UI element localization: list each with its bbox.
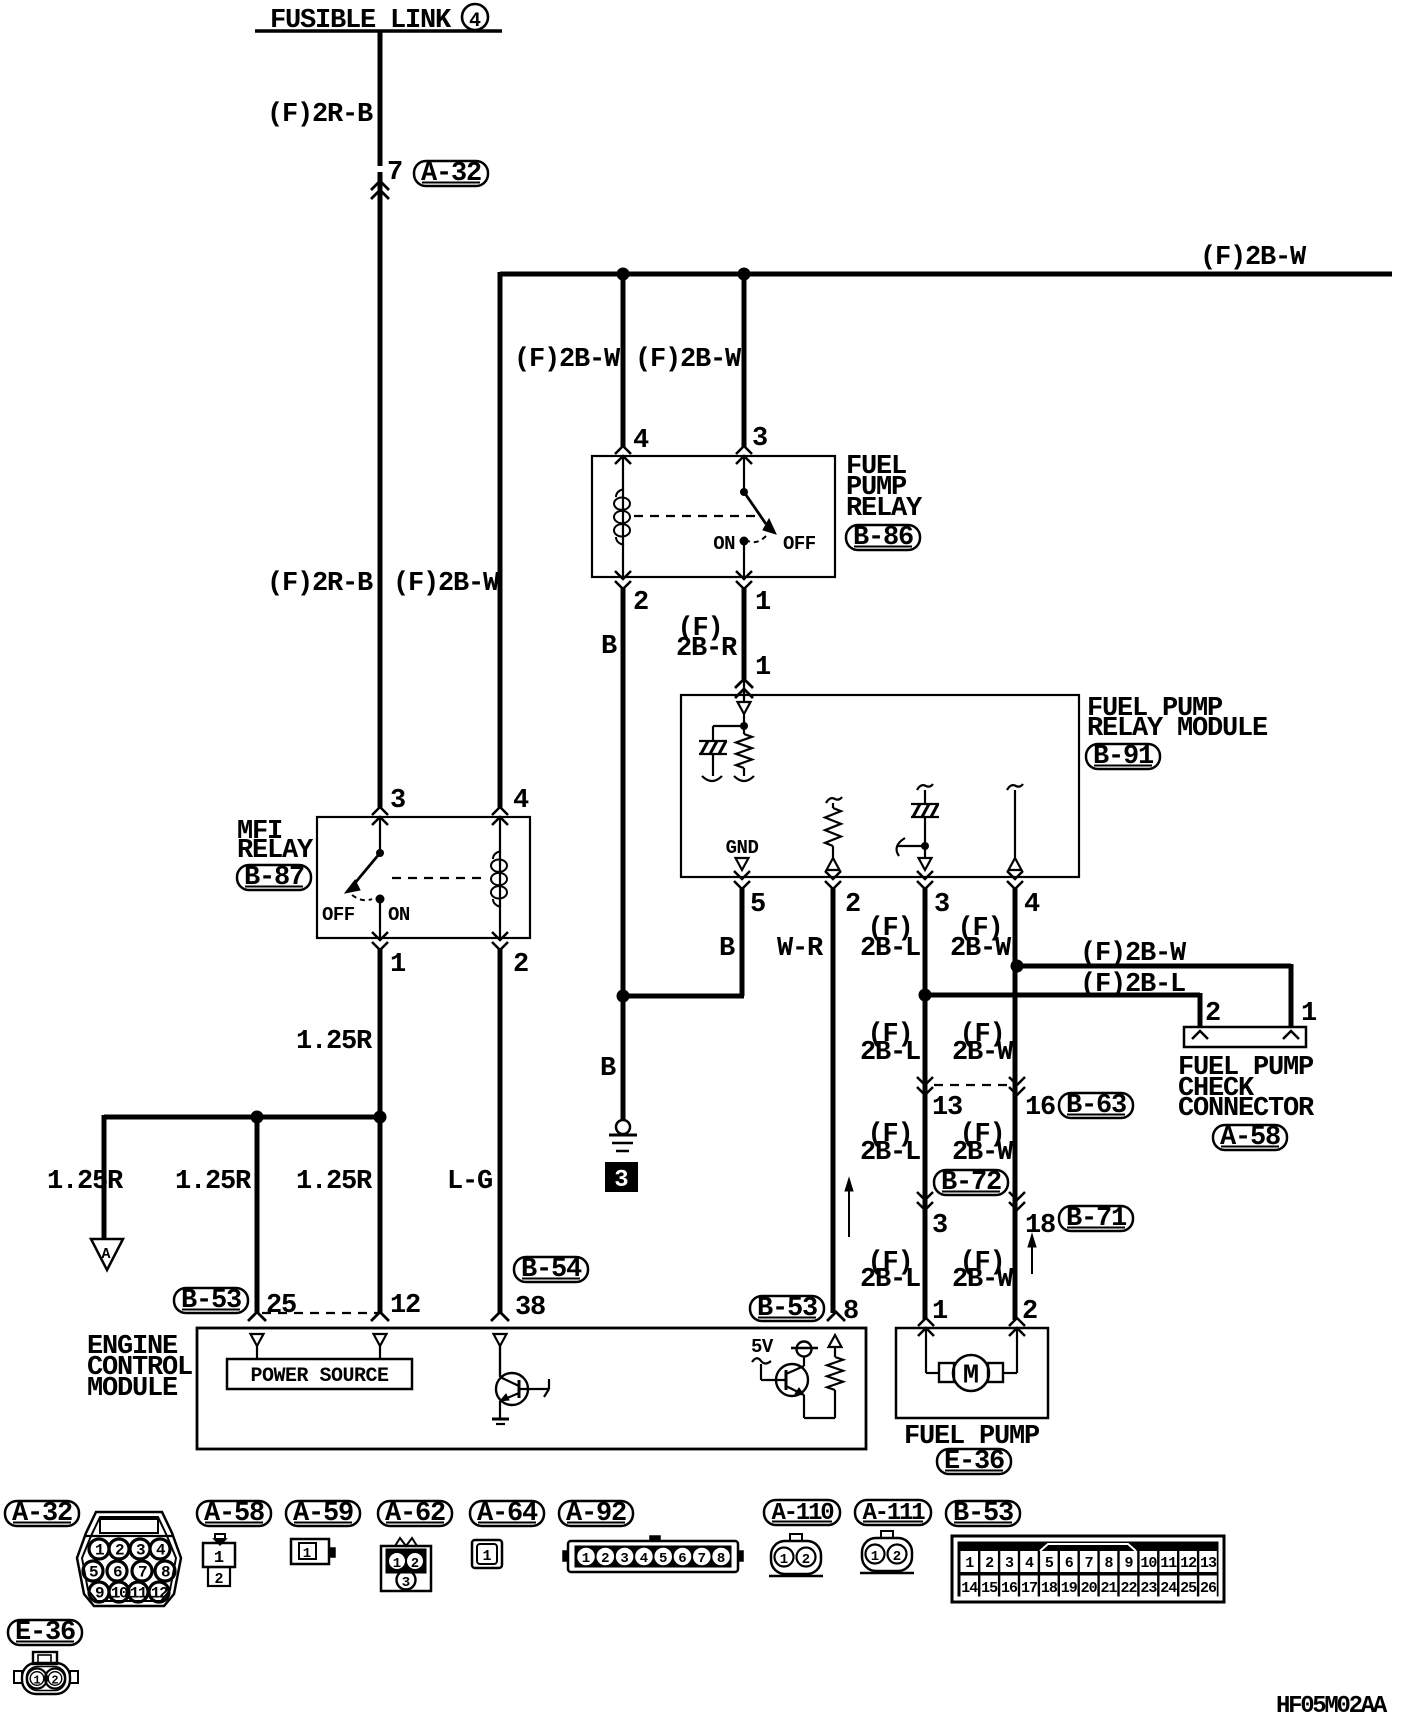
svg-text:20: 20 xyxy=(1081,1580,1098,1597)
svg-text:1: 1 xyxy=(33,1674,40,1688)
ground ref black box 3 xyxy=(605,1162,638,1192)
svg-text:A-110: A-110 xyxy=(771,1500,834,1527)
connector label B-91 xyxy=(1086,744,1160,769)
module internal branch wire xyxy=(713,725,744,727)
svg-text:4: 4 xyxy=(1024,890,1040,920)
svg-text:8: 8 xyxy=(161,1564,170,1582)
svg-text:3: 3 xyxy=(620,1551,628,1567)
fuel pump pin2 entry chevrons xyxy=(1009,1318,1025,1326)
svg-text:7: 7 xyxy=(387,158,402,188)
MFI relay pin 3 entry chevrons xyxy=(372,807,388,815)
module pin 2 exit chevrons xyxy=(825,871,841,879)
junction dot 2B-W branch xyxy=(1011,960,1024,973)
ECM entry chevron pin 25 xyxy=(248,1312,266,1321)
svg-text:18: 18 xyxy=(1025,1211,1055,1241)
svg-text:2: 2 xyxy=(985,1555,994,1572)
svg-text:3: 3 xyxy=(752,424,767,454)
svg-text:L-G: L-G xyxy=(447,1167,492,1197)
connector label B-63 xyxy=(1059,1093,1133,1118)
module thyristor hatch xyxy=(699,740,727,742)
svg-text:15: 15 xyxy=(981,1580,998,1597)
svg-text:CONNECTOR: CONNECTOR xyxy=(1178,1094,1315,1124)
svg-text:1.25R: 1.25R xyxy=(175,1167,252,1197)
MFI relay switch arm xyxy=(350,853,380,889)
svg-text:(F)2B-W: (F)2B-W xyxy=(1200,243,1307,273)
connector label A-58 bottom xyxy=(197,1501,271,1526)
ECM transistor Q1 xyxy=(496,1373,528,1405)
module pin 4 exit chevrons xyxy=(1007,871,1023,879)
svg-text:16: 16 xyxy=(1025,1093,1055,1123)
svg-text:11: 11 xyxy=(1160,1555,1177,1572)
fuel pump motor wires xyxy=(925,1328,927,1373)
svg-text:24: 24 xyxy=(1160,1580,1177,1597)
svg-text:26: 26 xyxy=(1200,1580,1217,1597)
svg-text:1: 1 xyxy=(390,950,406,980)
svg-text:4: 4 xyxy=(640,1551,648,1567)
connector label A-59 bottom xyxy=(286,1501,360,1526)
svg-text:16: 16 xyxy=(1001,1580,1018,1597)
svg-text:6: 6 xyxy=(113,1564,122,1582)
module pin3 left foot xyxy=(897,845,925,847)
svg-text:A-32: A-32 xyxy=(12,1499,72,1529)
connector label B-87 xyxy=(237,865,311,890)
svg-text:2B-L: 2B-L xyxy=(860,934,920,964)
connector label A-64 bottom xyxy=(470,1501,544,1526)
connector B-63 chevrons on 2B-L xyxy=(917,1077,933,1085)
connector label B-72 xyxy=(934,1170,1008,1195)
svg-text:A: A xyxy=(101,1246,110,1263)
junction dot x257 xyxy=(251,1111,264,1124)
svg-text:3: 3 xyxy=(934,890,949,920)
connector label A-58 xyxy=(1213,1125,1287,1150)
module pin 3 exit chevrons xyxy=(917,871,933,879)
svg-text:4: 4 xyxy=(1025,1555,1034,1572)
svg-text:2: 2 xyxy=(633,588,648,618)
fuel pump pin1 entry chevrons xyxy=(918,1318,934,1326)
svg-text:(F)2R-B: (F)2R-B xyxy=(267,569,373,599)
module pin3 hook xyxy=(917,784,933,790)
svg-text:OFF: OFF xyxy=(322,904,355,926)
svg-text:2B-W: 2B-W xyxy=(950,934,1012,964)
wire (F)2B-R relay pin1 to module xyxy=(742,587,747,679)
ground arrow A xyxy=(91,1239,123,1270)
wire (F)2B-W module pin4 down xyxy=(1013,887,1018,1320)
svg-text:5: 5 xyxy=(659,1551,667,1567)
svg-text:5: 5 xyxy=(89,1564,98,1582)
svg-text:8: 8 xyxy=(1105,1555,1114,1572)
svg-text:17: 17 xyxy=(1021,1580,1037,1597)
module GND triangle xyxy=(736,858,749,870)
svg-text:POWER SOURCE: POWER SOURCE xyxy=(250,1365,389,1388)
svg-text:(F)2B-L: (F)2B-L xyxy=(1080,970,1185,1000)
wire (F)2B-W to fuel pump relay pin 4 xyxy=(621,274,626,447)
power bus (F)2B-W horizontal xyxy=(500,272,1392,277)
fuel pump motor M xyxy=(953,1355,989,1391)
svg-text:1: 1 xyxy=(95,1542,104,1560)
MFI relay switch arc xyxy=(352,895,372,900)
module pin4 triangle xyxy=(1009,858,1022,870)
svg-text:9: 9 xyxy=(1124,1555,1133,1572)
svg-text:1: 1 xyxy=(393,1556,401,1572)
MFI relay coil wire xyxy=(499,817,501,938)
svg-text:RELAY MODULE: RELAY MODULE xyxy=(1087,714,1268,744)
module pin3 triangle xyxy=(919,858,932,870)
svg-text:5V: 5V xyxy=(751,1336,774,1358)
check connector chevrons xyxy=(1192,1031,1208,1039)
svg-text:GND: GND xyxy=(726,837,759,859)
connector A-32 inline chevrons on W1 xyxy=(371,181,389,190)
wire W1 (F)2R-B to MFI relay pin 3 xyxy=(378,172,383,808)
fuel pump relay B-86 box xyxy=(592,456,835,577)
module pin2 resistor hook xyxy=(826,797,842,803)
connector A-58 drawing xyxy=(215,1534,225,1539)
wire B corner to junction xyxy=(620,994,744,999)
relay B-86 coil wire xyxy=(622,456,624,577)
svg-text:6: 6 xyxy=(1065,1555,1074,1572)
ECM transistor ground xyxy=(499,1401,501,1419)
junction dot B wires xyxy=(617,990,630,1003)
MFI relay switch pivot dot xyxy=(376,849,384,857)
svg-text:2: 2 xyxy=(601,1551,609,1567)
svg-text:25: 25 xyxy=(1180,1580,1197,1597)
ECM pin8 input triangle xyxy=(829,1335,842,1347)
svg-text:E-36: E-36 xyxy=(944,1447,1004,1477)
svg-text:B: B xyxy=(600,1054,616,1084)
junction dot bus x623 xyxy=(617,268,630,281)
relay B-86 switch pivot dot xyxy=(740,488,748,496)
svg-text:11: 11 xyxy=(130,1585,147,1603)
svg-text:1.25R: 1.25R xyxy=(47,1167,124,1197)
svg-text:6: 6 xyxy=(678,1551,686,1567)
connector B-71 chevrons on 2B-W xyxy=(1009,1192,1025,1200)
svg-text:3: 3 xyxy=(932,1211,947,1241)
svg-text:2: 2 xyxy=(214,1571,223,1588)
wire (F)2B-W to fuel pump relay pin 3 xyxy=(742,274,747,447)
connector A-62 drawing xyxy=(381,1546,431,1591)
MFI relay pin 1 exit chevrons xyxy=(372,932,388,940)
svg-text:(F)2B-W: (F)2B-W xyxy=(1080,939,1187,969)
svg-text:2: 2 xyxy=(893,1549,901,1565)
svg-text:23: 23 xyxy=(1140,1580,1157,1597)
svg-text:2: 2 xyxy=(1022,1297,1037,1327)
svg-text:B-86: B-86 xyxy=(853,523,913,553)
ECM transistor Q2 emitter route xyxy=(803,1395,805,1418)
junction dot 2B-L branch xyxy=(919,989,932,1002)
svg-text:9: 9 xyxy=(95,1585,104,1603)
MFI relay ON wire down xyxy=(379,899,381,938)
svg-text:38: 38 xyxy=(515,1293,545,1323)
flow arrow on W-R wire xyxy=(848,1190,850,1237)
svg-text:2B-W: 2B-W xyxy=(952,1265,1014,1295)
connector label A-62 bottom xyxy=(378,1501,452,1526)
svg-text:2: 2 xyxy=(845,890,860,920)
svg-text:(F)2R-B: (F)2R-B xyxy=(267,100,373,130)
svg-text:7: 7 xyxy=(138,1564,147,1582)
fuel pump relay pin 4 entry chevrons xyxy=(615,446,631,454)
svg-text:12: 12 xyxy=(390,1291,420,1321)
svg-text:A-58: A-58 xyxy=(204,1499,264,1529)
svg-text:A-111: A-111 xyxy=(862,1500,925,1527)
wire B from relay pin 2 down to ground xyxy=(621,587,626,1120)
svg-text:B-91: B-91 xyxy=(1093,742,1154,772)
svg-text:RELAY: RELAY xyxy=(846,494,923,524)
fuel pump check connector box xyxy=(1184,1027,1306,1047)
svg-text:4: 4 xyxy=(633,426,649,456)
svg-text:13: 13 xyxy=(1200,1555,1217,1572)
svg-text:1: 1 xyxy=(214,1549,224,1568)
module pin2 resistor xyxy=(832,803,834,808)
power source box xyxy=(227,1359,412,1389)
relay B-86 dashed link xyxy=(634,515,756,517)
module pin3 wire xyxy=(924,817,926,858)
svg-text:HF05M02AA: HF05M02AA xyxy=(1276,1693,1388,1716)
ECM resistor R2 xyxy=(834,1347,836,1357)
relay B-86 switch wire from pin 3 xyxy=(743,456,745,492)
connector label A-111 bottom xyxy=(855,1500,931,1525)
svg-text:B-71: B-71 xyxy=(1066,1204,1127,1234)
MFI relay ON contact dot xyxy=(376,895,385,904)
svg-text:3: 3 xyxy=(1005,1555,1014,1572)
svg-text:5: 5 xyxy=(750,890,765,920)
module input triangle xyxy=(738,702,751,714)
svg-text:3: 3 xyxy=(390,786,405,816)
connector label A-32 bottom xyxy=(5,1501,79,1526)
svg-text:1: 1 xyxy=(871,1549,879,1565)
connector A-111 drawing xyxy=(862,1538,912,1571)
svg-text:B-54: B-54 xyxy=(521,1255,582,1285)
svg-text:2: 2 xyxy=(115,1542,124,1560)
connector A-59 drawing xyxy=(291,1539,329,1564)
svg-text:21: 21 xyxy=(1101,1580,1118,1597)
svg-text:W-R: W-R xyxy=(777,934,824,964)
ECM pin38 input triangle xyxy=(494,1334,507,1346)
fuel pump box xyxy=(896,1328,1048,1418)
svg-text:7: 7 xyxy=(698,1551,706,1567)
svg-text:3: 3 xyxy=(402,1575,410,1591)
relay B-86 ON wire down xyxy=(743,541,745,577)
ECM transistor Q2 xyxy=(776,1364,808,1396)
module pin4 hook xyxy=(1007,784,1023,790)
wire x257 down to ECM pin 25 xyxy=(255,1117,260,1313)
svg-text:18: 18 xyxy=(1041,1580,1058,1597)
junction horizontal wire xyxy=(104,1115,380,1120)
module thyristor foot xyxy=(712,755,714,776)
svg-text:RELAY: RELAY xyxy=(237,836,314,866)
wire W1 upper (F)2R-B from fusible link xyxy=(378,31,383,166)
connector label A-92 bottom xyxy=(559,1501,633,1526)
svg-text:2: 2 xyxy=(802,1552,810,1568)
svg-text:B-53: B-53 xyxy=(953,1499,1013,1529)
svg-text:1: 1 xyxy=(482,1548,491,1565)
svg-text:2B-W: 2B-W xyxy=(952,1038,1014,1068)
module pin4 wire xyxy=(1014,790,1016,858)
svg-text:13: 13 xyxy=(932,1093,962,1123)
ECM entry chevron pin 12 xyxy=(371,1312,389,1321)
connector A-32 drawing outline xyxy=(77,1512,181,1606)
MFI relay pin 4 entry chevrons xyxy=(492,807,508,815)
svg-text:1: 1 xyxy=(932,1297,948,1327)
module pin 5 exit chevrons xyxy=(734,871,750,879)
module internal node dot xyxy=(743,714,745,726)
connector A-92 drawing xyxy=(568,1541,738,1572)
svg-text:19: 19 xyxy=(1061,1580,1078,1597)
module pin2 triangle xyxy=(827,858,840,870)
svg-text:3: 3 xyxy=(614,1167,628,1194)
svg-text:1: 1 xyxy=(582,1551,590,1567)
svg-text:3: 3 xyxy=(136,1542,145,1560)
connector A-32 pins xyxy=(86,1535,172,1537)
svg-text:8: 8 xyxy=(843,1297,858,1327)
ECM pin12 input triangle xyxy=(374,1334,387,1346)
ECM circle terminal xyxy=(797,1342,812,1357)
dashed link pins 25-12 xyxy=(262,1312,378,1314)
svg-text:10: 10 xyxy=(1140,1555,1157,1572)
connector label E-36 bottom xyxy=(8,1620,82,1645)
relay B-86 switch arm xyxy=(744,492,766,524)
svg-text:A-58: A-58 xyxy=(1220,1123,1280,1153)
svg-text:2B-W: 2B-W xyxy=(952,1138,1014,1168)
svg-text:ON: ON xyxy=(713,533,735,555)
wire (F)2B-L module pin3 down xyxy=(923,887,928,1320)
wire down to ground arrow A xyxy=(102,1115,107,1238)
svg-text:4: 4 xyxy=(513,786,529,816)
svg-text:B-87: B-87 xyxy=(244,863,304,893)
MFI relay pin 2 exit chevrons xyxy=(492,932,508,940)
module pin3 junction dot xyxy=(921,842,929,850)
svg-text:1: 1 xyxy=(1301,999,1317,1029)
connector B-63 dashed link xyxy=(934,1084,1008,1086)
wire W-R module pin2 to ECM pin 8 xyxy=(831,887,836,1313)
fuel pump relay module B-91 box xyxy=(681,695,1079,877)
connector label E-36 xyxy=(937,1449,1011,1474)
MFI relay switch wire xyxy=(379,817,381,853)
svg-text:A-32: A-32 xyxy=(421,159,481,189)
connector label B-54 xyxy=(514,1257,588,1282)
svg-text:B-63: B-63 xyxy=(1066,1091,1126,1121)
fuel pump relay pin 3 entry chevrons xyxy=(736,446,752,454)
svg-text:B: B xyxy=(719,934,735,964)
svg-text:B: B xyxy=(601,632,617,662)
svg-text:7: 7 xyxy=(1085,1555,1093,1572)
relay B-86 pin 1 exit chevrons xyxy=(736,571,752,579)
relay B-86 ON contact dot xyxy=(740,537,749,546)
svg-text:A-92: A-92 xyxy=(566,1499,626,1529)
module pin3 hatch xyxy=(911,803,939,805)
svg-text:(F)2B-W: (F)2B-W xyxy=(393,569,500,599)
connector B-72 chevrons on 2B-L xyxy=(917,1192,933,1200)
relay B-86 pin 2 exit chevrons xyxy=(615,571,631,579)
svg-text:1: 1 xyxy=(755,653,771,683)
MFI relay B-87 box xyxy=(317,817,530,938)
svg-text:1: 1 xyxy=(303,1546,311,1562)
svg-text:1: 1 xyxy=(755,588,771,618)
connector label B-53 right xyxy=(750,1296,824,1321)
ECM pin25 input triangle xyxy=(251,1334,264,1346)
connector A-110 drawing xyxy=(771,1541,821,1574)
engine control module box xyxy=(197,1328,866,1449)
connector B-53 drawing xyxy=(952,1536,1224,1602)
svg-text:22: 22 xyxy=(1120,1580,1137,1597)
connector B-63 chevrons on 2B-W xyxy=(1009,1077,1025,1085)
svg-text:(F)2B-W: (F)2B-W xyxy=(514,345,621,375)
junction dot bus x744 xyxy=(738,268,751,281)
svg-text:10: 10 xyxy=(111,1585,128,1603)
connector label B-71 xyxy=(1059,1206,1133,1231)
svg-text:B-53: B-53 xyxy=(181,1286,241,1316)
svg-text:MODULE: MODULE xyxy=(87,1374,178,1404)
connector label A-110 bottom xyxy=(764,1500,840,1525)
svg-text:B-53: B-53 xyxy=(757,1294,817,1324)
wire bus corner down to MFI pin 4 xyxy=(498,272,503,808)
fusible link underline xyxy=(255,29,502,33)
wire L-G MFI pin2 to ECM pin38 xyxy=(498,948,503,1313)
svg-text:2: 2 xyxy=(51,1674,58,1688)
ground symbol xyxy=(616,1120,630,1134)
svg-text:1: 1 xyxy=(965,1555,974,1572)
module pin 1 entry chevrons xyxy=(735,679,753,688)
relay B-86 switch arc xyxy=(748,536,766,542)
connector label B-86 xyxy=(846,525,920,550)
svg-text:2: 2 xyxy=(411,1556,419,1572)
svg-text:2B-L: 2B-L xyxy=(860,1038,920,1068)
svg-text:1.25R: 1.25R xyxy=(296,1167,373,1197)
svg-text:1.25R: 1.25R xyxy=(296,1027,373,1057)
svg-text:8: 8 xyxy=(717,1551,725,1567)
svg-text:5: 5 xyxy=(1045,1555,1054,1572)
svg-text:25: 25 xyxy=(266,1291,296,1321)
connector label B-53 left xyxy=(174,1288,248,1313)
module resistor R1 xyxy=(743,726,745,734)
svg-text:2B-L: 2B-L xyxy=(860,1138,920,1168)
MFI relay dashed link xyxy=(392,877,486,879)
connector label B-53 bottom xyxy=(946,1501,1020,1526)
wire B module pin5 down xyxy=(740,887,745,996)
svg-text:M: M xyxy=(963,1362,979,1392)
svg-text:14: 14 xyxy=(961,1580,978,1597)
branch wire 2B-W to check connector xyxy=(1017,964,1291,969)
MFI relay coil loops xyxy=(491,860,507,872)
svg-text:2: 2 xyxy=(513,950,528,980)
svg-text:OFF: OFF xyxy=(783,533,816,555)
svg-text:(F)2B-W: (F)2B-W xyxy=(635,345,742,375)
svg-text:1: 1 xyxy=(780,1552,788,1568)
svg-text:A-64: A-64 xyxy=(477,1499,538,1529)
ECM entry chevron pin 8 xyxy=(827,1312,845,1321)
svg-text:2: 2 xyxy=(1205,999,1220,1029)
svg-text:12: 12 xyxy=(151,1585,168,1603)
junction dot x380 xyxy=(374,1111,387,1124)
connector A-64 drawing xyxy=(472,1540,502,1568)
svg-text:A-59: A-59 xyxy=(293,1499,353,1529)
branch wire 2B-L to check connector xyxy=(925,993,1200,998)
connector label A-32 xyxy=(414,161,488,186)
svg-text:2B-L: 2B-L xyxy=(860,1265,920,1295)
flow arrow on 2B-W wire xyxy=(1031,1246,1033,1274)
connector E-36 drawing xyxy=(33,1652,57,1664)
svg-text:2B-R: 2B-R xyxy=(676,634,738,664)
svg-text:12: 12 xyxy=(1180,1555,1197,1572)
wire 1.25R MFI pin1 to ECM pin12 xyxy=(378,948,383,1313)
ECM entry chevron pin 38 xyxy=(491,1312,509,1321)
svg-text:B-72: B-72 xyxy=(941,1168,1001,1198)
svg-text:ON: ON xyxy=(388,904,410,926)
svg-text:A-62: A-62 xyxy=(385,1499,445,1529)
svg-text:E-36: E-36 xyxy=(15,1618,75,1648)
relay B-86 coil loops xyxy=(614,498,630,510)
